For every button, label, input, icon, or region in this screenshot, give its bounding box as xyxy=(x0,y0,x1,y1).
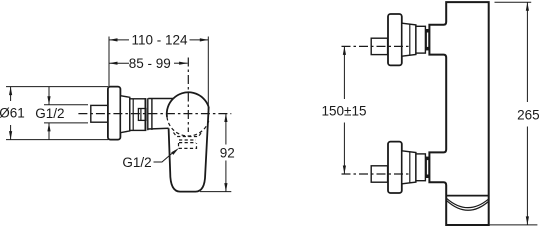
hidden outlet G1/2 rect xyxy=(179,143,197,148)
body neck top line xyxy=(148,98,173,100)
dimension 85-99 xyxy=(109,62,188,65)
bottom connector block xyxy=(402,151,416,184)
dimension 92 xyxy=(224,114,227,192)
valve sleeve (left view) xyxy=(130,99,146,131)
centerline horizontal (mixer axis) xyxy=(78,113,231,115)
extension line 92 bottom xyxy=(200,191,231,193)
svg-text:150±15: 150±15 xyxy=(322,103,367,118)
svg-text:85 - 99: 85 - 99 xyxy=(129,56,171,71)
spout mouth arc inner xyxy=(447,201,489,211)
extension line 265 bottom xyxy=(490,224,538,226)
centerline vertical (cartridge axis / 85-99 reference) xyxy=(187,58,189,133)
top connector block xyxy=(402,23,416,56)
top block inner edge xyxy=(409,24,411,55)
svg-text:G1/2: G1/2 xyxy=(35,106,64,121)
dimension 265 xyxy=(526,2,529,225)
union nut detail xyxy=(138,109,146,121)
bottom joint ring lines xyxy=(426,157,429,178)
wall nipple G1/2 (left view) xyxy=(91,105,108,122)
dimension 150±15 xyxy=(343,46,346,174)
extension line left (wall face) xyxy=(108,37,110,87)
top escutcheon flange xyxy=(388,14,402,65)
svg-text:110 - 124: 110 - 124 xyxy=(131,33,188,48)
svg-text:G1/2: G1/2 xyxy=(122,155,151,170)
hidden outlet funnel dashes xyxy=(174,133,202,137)
sleeve inner edge xyxy=(132,99,134,131)
top narrow connector xyxy=(416,26,426,53)
top inlet centerline xyxy=(342,45,411,47)
extension line Ø61 bottom xyxy=(6,139,108,141)
dimension G1/2 arrows xyxy=(47,87,50,140)
extension line G1/2 top xyxy=(44,104,88,106)
bottom escutcheon flange xyxy=(388,142,402,193)
hidden cartridge circle (dashed lower arc) xyxy=(167,117,209,136)
leader line G1/2 outlet xyxy=(154,151,176,162)
bottom block inner edge xyxy=(409,152,411,183)
body neck bottom line xyxy=(148,127,168,130)
hidden outlet thread line 2 xyxy=(179,142,196,144)
column body outline with inlet bosses xyxy=(429,2,488,225)
top joint ring lines xyxy=(426,29,429,50)
circle left lower solid part xyxy=(167,99,174,118)
spout section line xyxy=(446,195,489,197)
svg-text:92: 92 xyxy=(220,145,235,160)
collar block xyxy=(151,98,153,129)
escutcheon flange Ø61 (left view) xyxy=(108,87,121,140)
bottom ring tick lower xyxy=(426,175,430,179)
joint ring xyxy=(145,98,148,130)
extension line right (handle front) xyxy=(207,37,209,111)
svg-text:Ø61: Ø61 xyxy=(0,106,25,121)
top wall nipple xyxy=(371,38,387,54)
bottom wall nipple xyxy=(371,166,387,182)
escutcheon cone (left view) xyxy=(120,96,129,133)
bottom ring tick upper xyxy=(426,157,430,161)
extension line Ø61 top xyxy=(6,86,108,88)
mixer body outline xyxy=(169,107,209,192)
svg-text:265: 265 xyxy=(517,107,539,122)
top ring tick lower xyxy=(426,47,430,51)
dimension 110-124 xyxy=(109,38,208,41)
hidden outlet thread line 1 xyxy=(179,139,196,141)
union nut inner edge xyxy=(140,109,142,121)
bottom inlet centerline xyxy=(342,173,411,175)
leader arrow xyxy=(171,148,179,155)
dimension Ø61 line xyxy=(9,87,12,140)
bottom narrow connector xyxy=(416,154,426,181)
extension line G1/2 bottom xyxy=(44,122,88,124)
top ring tick upper xyxy=(426,29,430,33)
extension line 265 top xyxy=(495,1,532,3)
mixer body cartridge circle (solid upper arc) xyxy=(173,92,208,107)
spout mouth arc outer xyxy=(447,198,489,207)
